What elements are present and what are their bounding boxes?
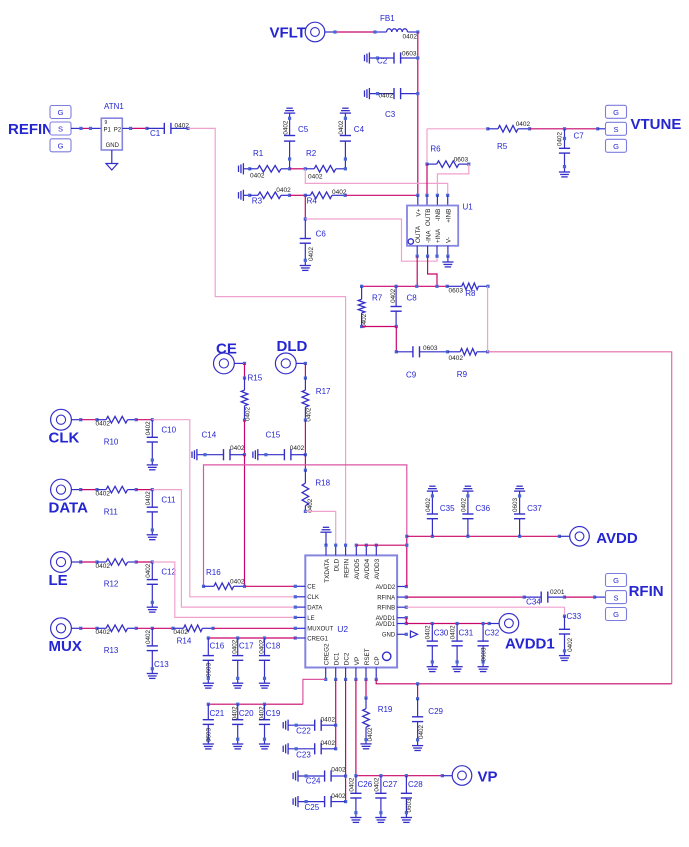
wire [152, 627, 173, 629]
pin TXDATA (U2 top) [325, 545, 327, 555]
ferrite bead FB1 [387, 29, 408, 32]
resistor R10 [97, 419, 106, 421]
wire [244, 363, 246, 378]
svg-text:0603: 0603 [449, 288, 464, 295]
svg-text:C23: C23 [296, 751, 311, 760]
svg-text:R17: R17 [316, 387, 331, 396]
svg-text:0603: 0603 [406, 798, 413, 813]
ground (ATN1 GND, open triangle) [111, 150, 113, 164]
ground (C3) [364, 90, 366, 96]
capacitor C5 [289, 141, 291, 169]
wire DC2 net [345, 679, 347, 801]
svg-text:0402: 0402 [556, 132, 563, 147]
pin DC1 (U2 bottom) [335, 668, 337, 680]
wire R5 to R6 link [426, 129, 428, 164]
svg-text:0402: 0402 [390, 288, 397, 303]
junction [171, 627, 174, 630]
svg-text:0402: 0402 [373, 777, 380, 792]
pad G (REFIN bottom) [50, 139, 71, 152]
resistor R11 [97, 489, 106, 491]
svg-text:C27: C27 [383, 780, 398, 789]
junction [563, 615, 566, 618]
svg-text:V-: V- [446, 237, 453, 243]
svg-text:CE: CE [216, 341, 237, 358]
svg-text:C33: C33 [567, 612, 582, 621]
resistor R7 [361, 286, 363, 299]
svg-text:GND: GND [106, 143, 120, 149]
junction [467, 163, 470, 166]
svg-text:0402: 0402 [450, 625, 457, 640]
junction [304, 362, 307, 365]
connector CLK [51, 409, 72, 430]
junction [243, 376, 246, 379]
svg-text:S: S [58, 125, 63, 134]
junction [563, 596, 566, 599]
resistor R3 [250, 194, 258, 196]
junction [304, 469, 307, 472]
junction [364, 696, 367, 699]
svg-text:C8: C8 [407, 294, 418, 303]
junction [79, 488, 82, 491]
ground (C2) [364, 55, 366, 61]
svg-text:C15: C15 [266, 431, 281, 440]
capacitor C8 [395, 286, 397, 306]
junction [243, 362, 246, 365]
svg-text:0402: 0402 [145, 491, 152, 506]
svg-text:AVDD1: AVDD1 [376, 622, 396, 628]
ground (C33) [559, 655, 570, 657]
connector AVDD [570, 527, 590, 547]
capacitor C35 [431, 519, 433, 537]
wire R18 to U2 DLD pin [305, 511, 335, 545]
junction [441, 774, 444, 777]
pin LE (U2 left) [295, 616, 305, 618]
resistor R15 [244, 378, 246, 390]
svg-text:C13: C13 [154, 660, 169, 669]
capacitor C30 [431, 624, 433, 642]
junction [263, 636, 266, 639]
pin DLD (U2 top) [335, 545, 337, 555]
wire [136, 561, 152, 563]
wire REFIN net to U2 REFIN pin [188, 128, 346, 545]
wire [81, 627, 97, 629]
svg-text:R10: R10 [104, 437, 119, 446]
pin CP (U2 bottom) [375, 668, 377, 680]
svg-text:C34: C34 [526, 598, 541, 607]
junction [486, 285, 489, 288]
junction [151, 627, 154, 630]
svg-text:C26: C26 [358, 780, 373, 789]
svg-text:0402: 0402 [321, 716, 336, 723]
pin RFINB (U2 right) [397, 606, 406, 608]
svg-text:C20: C20 [239, 709, 254, 718]
junction [416, 56, 419, 59]
pad S (RFIN) [606, 591, 627, 604]
capacitor C10 [151, 420, 153, 438]
svg-text:GND: GND [382, 633, 396, 639]
svg-text:LE: LE [307, 616, 314, 622]
wire [71, 419, 80, 421]
svg-text:C6: C6 [316, 230, 327, 239]
capacitor C33 [564, 616, 566, 629]
resistor R13 [97, 627, 106, 629]
svg-text:C4: C4 [354, 125, 365, 134]
wire DC1 net [335, 679, 337, 748]
ground (R3 left) [238, 192, 240, 198]
resistor R2 [305, 168, 314, 170]
svg-text:0402: 0402 [403, 34, 418, 41]
junction [304, 453, 307, 456]
capacitor C7 [564, 129, 566, 149]
capacitor C37 [519, 519, 521, 537]
junction [558, 535, 561, 538]
wire [290, 168, 306, 170]
svg-text:R19: R19 [378, 705, 393, 714]
svg-text:DC1: DC1 [334, 652, 341, 665]
svg-text:AVDD4: AVDD4 [364, 558, 371, 579]
svg-text:S: S [613, 125, 618, 134]
svg-text:0402: 0402 [425, 498, 432, 513]
wire [362, 326, 397, 328]
junction [395, 285, 398, 288]
svg-text:S: S [613, 593, 618, 602]
capacitor C31 [456, 624, 458, 642]
junction [488, 622, 491, 625]
PLL chip U2 [305, 555, 397, 667]
junction [523, 596, 526, 599]
svg-text:0402: 0402 [331, 767, 346, 774]
ground (R1 left) [238, 166, 240, 172]
connector VFLT [305, 22, 325, 42]
junction [304, 217, 307, 220]
junction [596, 127, 599, 130]
svg-text:CE: CE [307, 585, 315, 591]
junction [416, 92, 419, 95]
svg-text:G: G [613, 108, 619, 117]
svg-text:C31: C31 [459, 628, 474, 637]
capacitor C20 [237, 704, 239, 720]
junction [207, 636, 210, 639]
svg-text:RFINA: RFINA [377, 596, 395, 602]
svg-text:0402: 0402 [145, 630, 152, 645]
svg-text:0402: 0402 [290, 445, 305, 452]
wire MUXOUT net [213, 627, 295, 629]
junction [304, 376, 307, 379]
junction [202, 585, 205, 588]
junction [354, 774, 357, 777]
pin GND (U2 right) [397, 633, 406, 635]
svg-text:C11: C11 [161, 495, 176, 504]
svg-text:0402: 0402 [307, 498, 314, 513]
wire AVDD3/4/5 rail [356, 544, 407, 546]
resistor R5 [488, 128, 498, 130]
wire R8 to R9 node [487, 286, 489, 352]
svg-text:LE: LE [49, 572, 68, 589]
svg-text:P1: P1 [104, 127, 112, 133]
junction [466, 535, 469, 538]
svg-text:U2: U2 [337, 624, 348, 634]
capacitor C26 [355, 776, 357, 794]
svg-text:0402: 0402 [96, 491, 111, 498]
capacitor C27 [380, 776, 382, 794]
svg-text:C5: C5 [298, 125, 309, 134]
ground (C7) [559, 171, 570, 173]
svg-text:R7: R7 [372, 293, 383, 302]
svg-text:C25: C25 [305, 803, 320, 812]
resistor R1 [250, 168, 258, 170]
svg-text:0603: 0603 [512, 498, 519, 513]
svg-text:C37: C37 [527, 504, 542, 513]
svg-text:R4: R4 [307, 197, 318, 206]
junction [304, 167, 307, 170]
svg-text:0402: 0402 [230, 445, 245, 452]
svg-text:0402: 0402 [250, 172, 265, 179]
wire ATN1 P2 to C1 [122, 127, 130, 129]
svg-text:-INA: -INA [425, 230, 432, 243]
junction [95, 488, 98, 491]
junction [243, 419, 246, 422]
junction [518, 535, 521, 538]
junction [456, 622, 459, 625]
svg-text:R8: R8 [465, 289, 476, 298]
svg-text:C16: C16 [210, 641, 225, 650]
junction [379, 774, 382, 777]
wire VFLT to FB1 [325, 31, 335, 33]
wire VFLT net vertical [417, 32, 419, 195]
pad G (VTUNE bottom) [606, 139, 627, 152]
svg-text:0402: 0402 [331, 793, 346, 800]
wire CE to U2 pin [245, 585, 296, 587]
wire U1 -INA feedback [428, 256, 437, 286]
svg-text:0402: 0402 [449, 355, 464, 362]
pad G (REFIN top) [50, 106, 71, 119]
junction (U1 OUTB pin) [425, 194, 428, 197]
junction [446, 350, 449, 353]
svg-text:0402: 0402 [276, 187, 291, 194]
capacitor C18 [264, 638, 266, 656]
wire DATA net to U2 [152, 490, 295, 607]
svg-text:R15: R15 [248, 374, 263, 383]
svg-text:0402: 0402 [232, 639, 239, 654]
wire loop filter node [362, 285, 448, 287]
svg-text:0402: 0402 [418, 725, 425, 740]
capacitor C24 [292, 773, 294, 779]
svg-text:0402: 0402 [145, 563, 152, 578]
pin AVDD5 (U2 top) [355, 545, 357, 555]
wire VP net [355, 679, 357, 775]
svg-text:CP: CP [374, 656, 381, 665]
junction [151, 418, 154, 421]
wire [427, 128, 488, 130]
svg-text:0402: 0402 [230, 578, 245, 585]
connector CE [214, 353, 235, 374]
svg-text:DATA: DATA [49, 499, 89, 516]
svg-text:RFIN: RFIN [629, 583, 664, 600]
junction [151, 560, 154, 563]
svg-text:C2: C2 [377, 57, 388, 66]
wire RFINA net [406, 596, 524, 598]
capacitor C1 [147, 127, 164, 129]
svg-text:VFLT: VFLT [270, 25, 306, 42]
ground (C5) [284, 112, 295, 114]
connector MUX [51, 618, 72, 639]
svg-text:C29: C29 [428, 707, 443, 716]
svg-text:0402: 0402 [258, 639, 265, 654]
junction [416, 682, 419, 685]
svg-text:+INB: +INB [446, 209, 453, 223]
resistor R8 [447, 285, 462, 287]
pin DATA (U2 left) [295, 606, 305, 608]
pin marker circle (U1 OUTA) [408, 239, 413, 244]
svg-text:CREG1: CREG1 [307, 636, 328, 642]
svg-text:R11: R11 [104, 507, 119, 516]
svg-text:C19: C19 [266, 709, 281, 718]
junction (U1 +INA pin) [435, 255, 438, 258]
junction [360, 325, 363, 328]
connector AVDD1 [499, 614, 519, 634]
svg-text:0402: 0402 [379, 92, 394, 99]
wire R6 to U1 -INB [437, 164, 468, 195]
junction [135, 627, 138, 630]
junction [129, 127, 132, 130]
ground (C29) [412, 745, 423, 747]
wire loop to CP net [488, 352, 672, 684]
svg-text:DLD: DLD [277, 338, 308, 355]
svg-text:TXDATA: TXDATA [324, 558, 331, 583]
svg-text:RSET: RSET [364, 648, 371, 665]
svg-text:G: G [58, 142, 64, 151]
capacitor C19 [264, 704, 266, 720]
wire CE net to R16 [244, 455, 246, 587]
junction [415, 285, 418, 288]
attenuator ATN1 [101, 118, 122, 150]
svg-text:REFIN: REFIN [8, 121, 53, 138]
svg-text:AVDD5: AVDD5 [354, 558, 361, 579]
junction [416, 697, 419, 700]
junction [243, 585, 246, 588]
junction [425, 163, 428, 166]
svg-text:MUX: MUX [49, 638, 82, 655]
svg-text:P2: P2 [114, 127, 122, 133]
pin CREG1 (U2 left) [295, 637, 305, 639]
wire AVDD vertical to AVDD2 pin [406, 536, 408, 586]
wire [81, 419, 97, 421]
junction [395, 325, 398, 328]
junction [333, 30, 336, 33]
junction [405, 544, 408, 547]
svg-text:AVDD: AVDD [596, 530, 638, 547]
wire [290, 194, 306, 196]
capacitor C14 [191, 452, 193, 458]
wire [81, 489, 97, 491]
junction [135, 418, 138, 421]
svg-text:C9: C9 [406, 370, 417, 379]
svg-text:0402: 0402 [367, 727, 374, 742]
junction [248, 167, 251, 170]
pad S (REFIN) [50, 122, 71, 135]
junction [431, 535, 434, 538]
resistor R14 [173, 627, 184, 629]
junction [95, 418, 98, 421]
resistor R18 [304, 470, 306, 483]
svg-text:CLK: CLK [49, 430, 80, 447]
wire CLK net to U2 [152, 420, 295, 597]
svg-text:VTUNE: VTUNE [631, 116, 682, 133]
capacitor C3 [369, 93, 394, 95]
junction [405, 535, 408, 538]
pin AVDD2 (U2 right) [397, 586, 406, 588]
resistor R17 [304, 378, 306, 390]
junction [135, 488, 138, 491]
svg-text:0603: 0603 [402, 50, 417, 57]
resistor R16 [204, 585, 214, 587]
svg-text:C30: C30 [434, 628, 449, 637]
svg-text:OUTA: OUTA [415, 225, 422, 243]
wire [418, 683, 672, 685]
junction [288, 194, 291, 197]
wire [395, 327, 397, 352]
svg-text:0402: 0402 [258, 706, 265, 721]
wire [136, 627, 152, 629]
wire RFINB net [406, 607, 564, 616]
junction (U1 V+ pin) [416, 194, 419, 197]
junction [373, 30, 376, 33]
capacitor C32 [482, 624, 484, 642]
pin CREG2 (U2 bottom) [325, 668, 327, 680]
pad G (RFIN bottom) [606, 608, 627, 621]
junction [344, 774, 347, 777]
svg-text:0603: 0603 [205, 728, 212, 743]
junction [186, 127, 189, 130]
pin AVDD1 (U2 right) [397, 623, 406, 625]
connector DLD [275, 353, 296, 374]
connector DATA [51, 479, 72, 500]
U1 bottom pin stubs [416, 246, 418, 256]
junction (U1 V- pin) [446, 255, 449, 258]
svg-text:U1: U1 [463, 203, 474, 212]
svg-text:G: G [613, 610, 619, 619]
wire R4 to U1 V+ [345, 194, 418, 196]
svg-text:G: G [613, 142, 619, 151]
junction [431, 622, 434, 625]
ground (C6) [300, 265, 311, 267]
wire [304, 455, 306, 471]
svg-text:C3: C3 [385, 110, 396, 119]
resistor R12 [97, 561, 106, 563]
junction [593, 596, 596, 599]
capacitor C25 [292, 798, 294, 804]
wire VTUNE net [530, 128, 598, 130]
svg-text:DC2: DC2 [344, 652, 351, 665]
svg-text:AVDD1: AVDD1 [505, 636, 555, 653]
svg-text:C36: C36 [475, 504, 490, 513]
wire AVDD rail [407, 535, 560, 537]
junction [334, 724, 337, 727]
capacitor C11 [151, 490, 153, 508]
svg-text:C1: C1 [150, 129, 161, 138]
junction [248, 194, 251, 197]
capacitor C36 [467, 519, 469, 537]
svg-text:R6: R6 [430, 144, 441, 153]
junction [405, 774, 408, 777]
junction [151, 488, 154, 491]
pad G (VTUNE top) [606, 105, 627, 118]
capacitor C12 [151, 562, 153, 580]
svg-text:0402: 0402 [567, 637, 574, 652]
junction (U1 -INB pin) [436, 194, 439, 197]
wire [304, 195, 306, 219]
wire LE net to U2 [152, 562, 295, 617]
